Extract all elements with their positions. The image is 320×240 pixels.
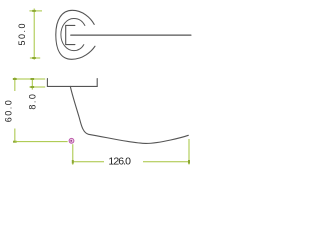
- svg-text:50.0: 50.0: [17, 22, 27, 46]
- svg-text:8.0: 8.0: [28, 93, 38, 110]
- svg-text:60.0: 60.0: [3, 99, 13, 123]
- svg-text:126.0: 126.0: [108, 156, 131, 168]
